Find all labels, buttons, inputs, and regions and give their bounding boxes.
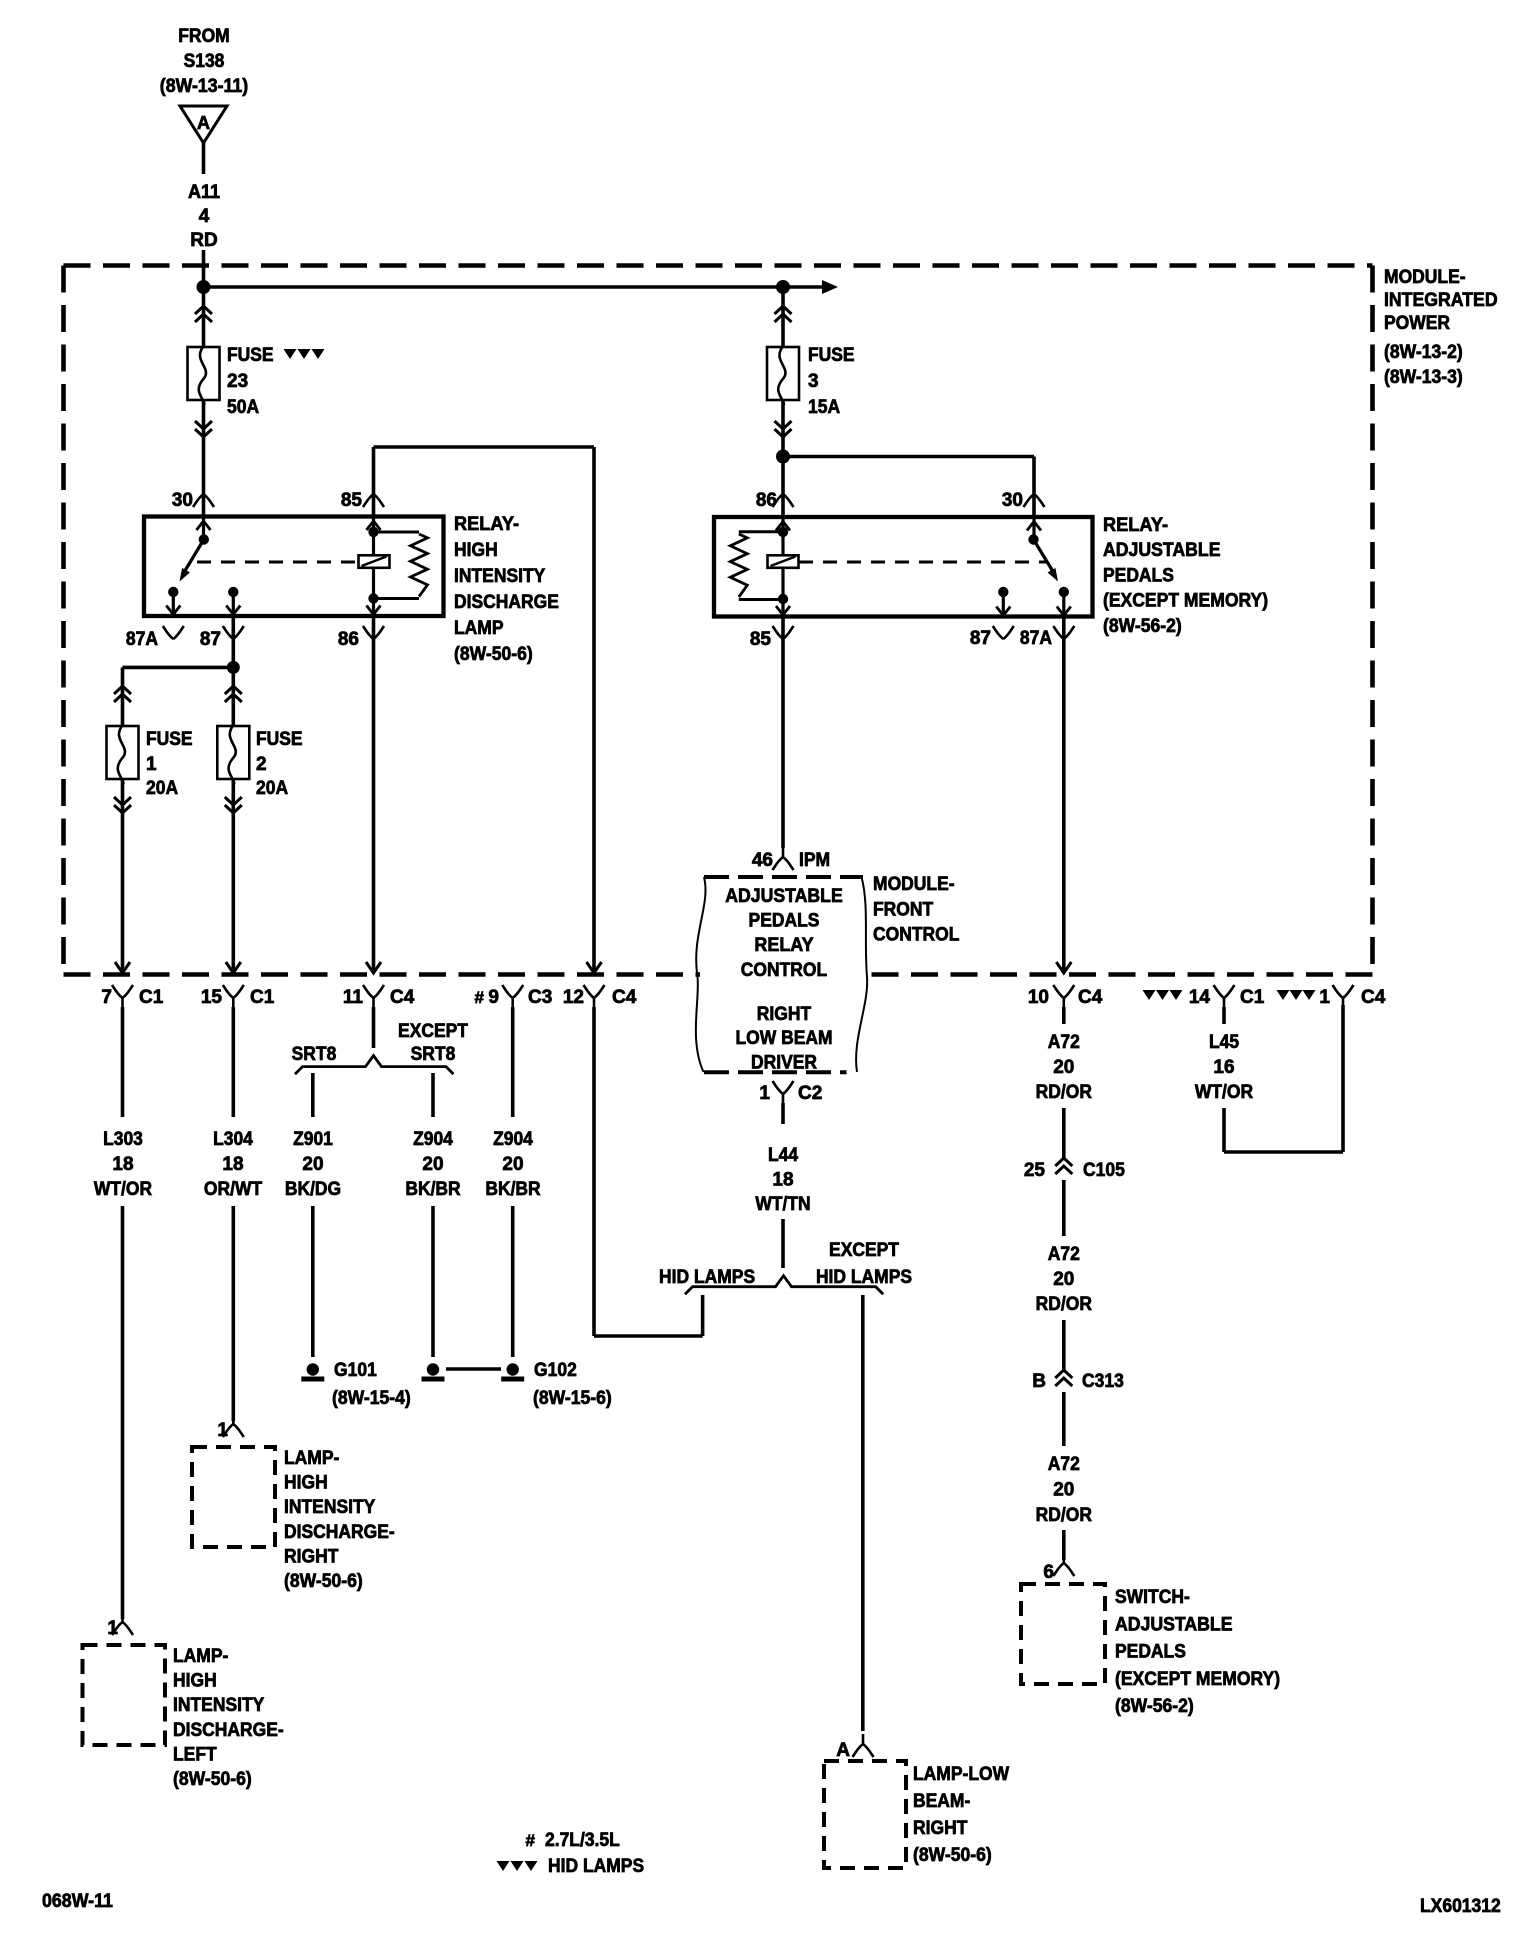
fuse 2 label	[256, 729, 303, 799]
lamp high intensity discharge right box	[192, 1447, 275, 1547]
svg-text:87A: 87A	[1020, 628, 1052, 649]
lamp high intensity discharge left box	[83, 1645, 166, 1745]
wire to switch pin 6	[1062, 1530, 1066, 1560]
pin label 87A	[126, 626, 184, 650]
svg-text:Z904: Z904	[413, 1129, 453, 1150]
connector 10 C4	[1028, 985, 1103, 1008]
svg-text:HIGH: HIGH	[454, 540, 498, 561]
svg-text:C4: C4	[390, 987, 415, 1008]
module-front control torn box	[696, 877, 867, 1072]
pin label 87 right relay	[970, 626, 1014, 649]
svg-text:30: 30	[1002, 490, 1023, 511]
svg-text:(EXCEPT MEMORY): (EXCEPT MEMORY)	[1103, 591, 1268, 612]
connector 12 C4	[563, 985, 637, 1008]
inline connector below fuse 2	[225, 797, 242, 813]
svg-text:20: 20	[422, 1154, 443, 1175]
svg-text:11: 11	[343, 987, 364, 1008]
right relay coil wire	[776, 519, 790, 615]
pin label 30 (right relay)	[1002, 490, 1045, 511]
module-integrated power dashed border box	[64, 266, 1373, 975]
wire label L45 16 WT/OR	[1195, 1032, 1254, 1103]
label SWITCH-ADJUSTABLE PEDALS	[1115, 1587, 1280, 1717]
svg-text:#: #	[526, 1831, 536, 1850]
wire label A11 4 RD	[188, 182, 221, 251]
label LAMP-HIGH INTENSITY DISCHARGE-LEFT	[173, 1646, 284, 1790]
svg-text:(8W-50-6): (8W-50-6)	[284, 1571, 363, 1592]
svg-text:86: 86	[756, 490, 777, 511]
svg-text:18: 18	[772, 1170, 793, 1191]
svg-text:10: 10	[1028, 987, 1049, 1008]
label SRT8	[292, 1044, 337, 1065]
wire Z901 upper	[311, 1073, 315, 1117]
svg-text:2: 2	[256, 754, 267, 775]
label LAMP-HIGH INTENSITY DISCHARGE-RIGHT	[284, 1448, 395, 1592]
svg-text:87A: 87A	[126, 629, 158, 650]
left relay coil bottom dot	[368, 593, 378, 603]
wire Z904 right to ground G102	[511, 1206, 515, 1357]
svg-text:20A: 20A	[146, 778, 178, 799]
svg-text:18: 18	[112, 1154, 133, 1175]
svg-text:C105: C105	[1083, 1160, 1125, 1181]
HID lamps split brace	[685, 1276, 883, 1295]
wire label A72 20 RD/OR (1)	[1036, 1032, 1093, 1103]
pin label 87A right relay	[1020, 626, 1074, 649]
svg-text:9: 9	[488, 987, 499, 1008]
svg-text:C4: C4	[612, 987, 637, 1008]
svg-text:L304: L304	[213, 1129, 253, 1150]
svg-text:23: 23	[227, 371, 248, 392]
lamp low beam right box	[824, 1761, 906, 1868]
svg-text:C1: C1	[139, 987, 164, 1008]
label EXCEPT HID LAMPS	[816, 1240, 912, 1288]
fuse 1 label	[146, 729, 193, 799]
wire Z904 mid upper	[431, 1073, 435, 1117]
svg-text:(8W-56-2): (8W-56-2)	[1115, 1696, 1194, 1717]
svg-text:(8W-50-6): (8W-50-6)	[173, 1769, 252, 1790]
svg-text:20: 20	[1053, 1269, 1074, 1290]
wire to C105	[1062, 1108, 1066, 1158]
fuse 23 label	[227, 345, 274, 418]
wire to fuse 2	[232, 667, 236, 726]
svg-text:HID LAMPS: HID LAMPS	[548, 1856, 644, 1877]
legend HID LAMPS	[497, 1856, 645, 1877]
svg-text:DISCHARGE-: DISCHARGE-	[173, 1720, 284, 1741]
svg-text:RIGHT: RIGHT	[913, 1818, 968, 1839]
wire left relay pin 85 to connector 12	[374, 447, 595, 972]
svg-text:LAMP-: LAMP-	[284, 1448, 339, 1469]
SRT8 split brace	[295, 1056, 454, 1075]
svg-text:HIGH: HIGH	[173, 1671, 217, 1692]
svg-text:RD: RD	[190, 230, 217, 251]
junction dot fuse 3 branch	[776, 280, 790, 294]
wire to fuse 1	[121, 667, 125, 726]
wire Z901 to ground G101	[311, 1206, 315, 1357]
svg-text:WT/TN: WT/TN	[755, 1194, 810, 1215]
svg-text:C4: C4	[1361, 987, 1386, 1008]
svg-text:(8W-56-2): (8W-56-2)	[1103, 616, 1182, 637]
wire Z904 mid to ground	[431, 1206, 435, 1357]
wire label L304 18 OR/WT	[204, 1129, 263, 1200]
wire fuse 3 to relay pin 86	[781, 400, 785, 517]
svg-text:RIGHT: RIGHT	[284, 1546, 339, 1567]
wire L304 to lamp right	[232, 1206, 236, 1421]
svg-text:LOW BEAM: LOW BEAM	[735, 1028, 832, 1049]
wire L45 loop to connector 1 C4	[1224, 1005, 1343, 1152]
label G101	[332, 1360, 411, 1409]
svg-text:G101: G101	[334, 1360, 377, 1381]
legend 2.7L/3.5L	[526, 1830, 621, 1851]
connector 1 C4	[1277, 985, 1386, 1008]
left relay switch arm	[180, 540, 204, 582]
pin label 46 IPM	[752, 847, 830, 871]
connector 1 C2	[759, 1081, 822, 1104]
svg-text:HIGH: HIGH	[284, 1473, 328, 1494]
right relay switch arm	[1034, 540, 1059, 582]
connector pin 1 lamp left	[107, 1612, 133, 1639]
wire label Z901 20 BK/DG	[285, 1129, 341, 1200]
pin label 87	[200, 626, 244, 650]
wire to C313	[1062, 1320, 1066, 1370]
right relay suppression resistor	[730, 532, 783, 600]
svg-text:INTENSITY: INTENSITY	[173, 1695, 265, 1716]
pin label 85 (left relay)	[341, 490, 384, 511]
svg-text:LEFT: LEFT	[173, 1744, 217, 1765]
svg-text:(EXCEPT MEMORY): (EXCEPT MEMORY)	[1115, 1669, 1280, 1690]
inline connector C313	[1032, 1370, 1124, 1392]
svg-text:18: 18	[222, 1154, 243, 1175]
fuse F23 50A	[188, 345, 220, 405]
connector 7 C1	[101, 985, 163, 1008]
label HID LAMPS	[659, 1267, 755, 1288]
svg-text:(8W-13-11): (8W-13-11)	[160, 76, 248, 97]
junction dot fuse3/relay30 branch	[776, 450, 790, 464]
connector pin 1 lamp right	[217, 1414, 243, 1441]
svg-text:LAMP-: LAMP-	[173, 1646, 228, 1667]
pin label 86 below	[338, 626, 384, 650]
svg-text:25: 25	[1024, 1160, 1046, 1181]
svg-text:INTENSITY: INTENSITY	[284, 1497, 376, 1518]
wire label Z904 20 BK/BR mid	[405, 1129, 461, 1200]
wire bus to fuse 3	[781, 287, 785, 348]
node S138 source label	[160, 26, 248, 97]
wire connector 7 down	[121, 1007, 125, 1117]
svg-text:A: A	[836, 1740, 850, 1761]
inline connector C105	[1024, 1158, 1125, 1181]
svg-text:RD/OR: RD/OR	[1036, 1082, 1093, 1103]
svg-text:46: 46	[752, 850, 773, 871]
left relay mechanical link	[197, 561, 359, 564]
left relay 87A stub	[166, 592, 180, 615]
left relay contact 87A dot	[168, 587, 178, 597]
svg-text:WT/OR: WT/OR	[94, 1179, 153, 1200]
svg-text:LX601312: LX601312	[1420, 1896, 1501, 1917]
label LAMP-LOW BEAM-RIGHT	[913, 1764, 1009, 1866]
svg-text:1: 1	[1319, 987, 1330, 1008]
svg-text:HID LAMPS: HID LAMPS	[816, 1267, 912, 1288]
svg-text:86: 86	[338, 629, 359, 650]
arrow into connector 11	[366, 962, 381, 973]
svg-text:FRONT: FRONT	[873, 899, 934, 920]
svg-text:(8W-50-6): (8W-50-6)	[913, 1845, 992, 1866]
arrow into connector 10	[1056, 962, 1071, 973]
right relay switch common dot	[1028, 534, 1038, 544]
svg-text:(8W-15-6): (8W-15-6)	[533, 1388, 612, 1409]
svg-text:6: 6	[1043, 1562, 1054, 1583]
right relay coil symbol	[768, 555, 799, 568]
wire pin 86 to connector 11	[372, 616, 376, 972]
svg-text:50A: 50A	[227, 397, 259, 418]
svg-text:20A: 20A	[256, 778, 288, 799]
svg-text:BK/BR: BK/BR	[485, 1179, 541, 1200]
svg-text:BK/BR: BK/BR	[405, 1179, 461, 1200]
svg-text:ADJUSTABLE: ADJUSTABLE	[725, 886, 843, 907]
svg-text:PEDALS: PEDALS	[1103, 565, 1174, 586]
junction dot 87 branch	[227, 661, 240, 674]
svg-text:SRT8: SRT8	[292, 1044, 337, 1065]
svg-text:MODULE-: MODULE-	[1384, 267, 1466, 288]
svg-text:16: 16	[1213, 1057, 1234, 1078]
wire fuse 2 to connector 15	[232, 779, 236, 972]
left relay 87 stub	[226, 592, 240, 615]
svg-text:EXCEPT: EXCEPT	[829, 1240, 899, 1261]
svg-text:L44: L44	[768, 1145, 798, 1166]
svg-text:14: 14	[1189, 987, 1211, 1008]
connector pin A lamp low beam	[836, 1734, 873, 1761]
svg-text:LAMP-LOW: LAMP-LOW	[913, 1764, 1009, 1785]
connector 15 C1	[201, 985, 275, 1008]
svg-text:G102: G102	[534, 1360, 577, 1381]
inline connector above fuse 23	[195, 306, 212, 322]
svg-text:C313: C313	[1082, 1371, 1124, 1392]
right relay mechanical link	[799, 561, 1046, 564]
inline connector below fuse 3	[775, 421, 792, 437]
svg-text:CONTROL: CONTROL	[741, 960, 828, 981]
svg-text:RD/OR: RD/OR	[1036, 1505, 1093, 1526]
svg-text:1: 1	[759, 1083, 770, 1104]
pin label 85 below	[750, 626, 794, 650]
left relay suppression resistor	[374, 532, 428, 599]
svg-text:S138: S138	[184, 51, 225, 72]
wire connector 10 down	[1062, 1007, 1066, 1024]
wire label A72 20 RD/OR (3)	[1036, 1454, 1093, 1526]
right relay coil bottom dot	[778, 594, 788, 604]
svg-text:87: 87	[970, 628, 991, 649]
svg-text:ADJUSTABLE: ADJUSTABLE	[1115, 1614, 1233, 1635]
left relay coil top dot	[368, 527, 378, 537]
wire A11 from triangle to bus	[202, 143, 206, 348]
connector 11 C4	[343, 985, 415, 1008]
label EXCEPT SRT8	[398, 1021, 468, 1065]
svg-text:3: 3	[808, 371, 819, 392]
svg-text:30: 30	[172, 490, 193, 511]
svg-text:(8W-13-2): (8W-13-2)	[1384, 342, 1463, 363]
svg-text:ADJUSTABLE: ADJUSTABLE	[1103, 540, 1221, 561]
label RELAY-HIGH INTENSITY DISCHARGE LAMP	[454, 514, 559, 665]
svg-text:(8W-13-3): (8W-13-3)	[1384, 367, 1463, 388]
wire except-hid to lamp low beam	[861, 1295, 865, 1731]
relay K1 high intensity discharge lamp box	[144, 517, 444, 617]
svg-text:LAMP: LAMP	[454, 618, 504, 639]
svg-text:20: 20	[1053, 1480, 1074, 1501]
HID lamps marker triangles at fuse 23	[284, 349, 325, 359]
connector 14 C1	[1143, 985, 1265, 1008]
svg-text:PEDALS: PEDALS	[1115, 1642, 1186, 1663]
label RELAY-ADJUSTABLE PEDALS (EXCEPT MEMORY)	[1103, 515, 1268, 637]
wire connector 11 to brace	[372, 1007, 376, 1048]
left relay pin30 internal arrow	[197, 518, 211, 540]
right relay coil top dot	[778, 527, 788, 537]
svg-text:20: 20	[302, 1154, 323, 1175]
svg-text:WT/OR: WT/OR	[1195, 1082, 1254, 1103]
svg-text:C1: C1	[1240, 987, 1265, 1008]
svg-text:4: 4	[199, 206, 210, 227]
left relay coil wire	[367, 518, 381, 615]
switch adjustable pedals box	[1021, 1584, 1105, 1684]
svg-text:A11: A11	[188, 182, 221, 203]
wire below C105	[1062, 1180, 1066, 1236]
svg-text:L303: L303	[103, 1129, 143, 1150]
svg-text:2.7L/3.5L: 2.7L/3.5L	[545, 1830, 620, 1851]
svg-text:15: 15	[201, 987, 223, 1008]
ground G102	[501, 1363, 524, 1379]
svg-text:85: 85	[341, 490, 363, 511]
svg-text:(8W-50-6): (8W-50-6)	[454, 644, 533, 665]
wire right relay 87A to connector 10	[1062, 617, 1066, 972]
svg-text:HID LAMPS: HID LAMPS	[659, 1267, 755, 1288]
svg-text:RELAY-: RELAY-	[1103, 515, 1168, 536]
svg-text:RD/OR: RD/OR	[1036, 1294, 1093, 1315]
svg-text:FUSE: FUSE	[146, 729, 193, 750]
svg-text:RIGHT: RIGHT	[757, 1004, 812, 1025]
wire connector 14 down	[1222, 1007, 1226, 1024]
wire label L44 18 WT/TN	[755, 1145, 810, 1215]
arrow into connector 15	[226, 962, 241, 973]
svg-text:SWITCH-: SWITCH-	[1115, 1587, 1190, 1608]
svg-text:L45: L45	[1209, 1032, 1239, 1053]
ground (mid, to G102)	[422, 1363, 445, 1379]
wire label Z904 20 BK/BR right	[485, 1129, 541, 1200]
right relay contact 87 dot	[998, 587, 1008, 597]
wire L44 to brace	[781, 1219, 785, 1268]
wire branch to right relay pin 30	[783, 457, 1034, 518]
svg-text:DISCHARGE: DISCHARGE	[454, 592, 559, 613]
svg-text:20: 20	[1053, 1057, 1074, 1078]
inline connector below fuse 1	[114, 797, 131, 813]
wire connector 15 down	[232, 1007, 236, 1117]
wire connector C2 down	[781, 1103, 785, 1124]
svg-text:87: 87	[200, 629, 221, 650]
svg-text:A72: A72	[1048, 1454, 1080, 1475]
arrow into connector 12	[587, 962, 602, 973]
left relay coil symbol	[359, 555, 390, 568]
svg-text:7: 7	[101, 987, 112, 1008]
svg-text:BK/DG: BK/DG	[285, 1179, 341, 1200]
svg-text:FUSE: FUSE	[227, 345, 274, 366]
svg-text:INTENSITY: INTENSITY	[454, 566, 546, 587]
svg-text:PEDALS: PEDALS	[749, 911, 820, 932]
svg-text:A72: A72	[1048, 1244, 1080, 1265]
wire connector 9 down	[511, 1007, 515, 1117]
svg-text:EXCEPT: EXCEPT	[398, 1021, 468, 1042]
torn box function text	[725, 886, 843, 1074]
svg-text:A: A	[197, 113, 210, 133]
label MODULE-INTEGRATED POWER	[1384, 267, 1498, 388]
pin label 86 (right relay)	[756, 490, 794, 511]
svg-text:85: 85	[750, 629, 772, 650]
wire fuse 23 to relay pin 30	[202, 400, 206, 516]
svg-text:DISCHARGE-: DISCHARGE-	[284, 1522, 395, 1543]
svg-text:1: 1	[146, 754, 157, 775]
svg-text:(8W-15-4): (8W-15-4)	[332, 1388, 411, 1409]
wire below C313	[1062, 1392, 1066, 1446]
svg-text:#: #	[475, 988, 485, 1007]
svg-text:INTEGRATED: INTEGRATED	[1384, 290, 1498, 311]
svg-text:20: 20	[502, 1154, 523, 1175]
svg-text:C1: C1	[250, 987, 275, 1008]
svg-text:RELAY: RELAY	[754, 935, 814, 956]
fuse F2 20A	[217, 724, 249, 784]
svg-text:A72: A72	[1048, 1032, 1080, 1053]
svg-text:FUSE: FUSE	[808, 345, 855, 366]
inline connector below fuse 23	[195, 421, 212, 437]
wire connector 12 down	[594, 1007, 703, 1336]
svg-text:B: B	[1032, 1371, 1046, 1392]
svg-text:12: 12	[563, 987, 584, 1008]
label G102	[533, 1360, 612, 1409]
junction dot A11 bus	[197, 280, 211, 294]
right relay 87 stub	[996, 592, 1010, 616]
svg-text:15A: 15A	[808, 397, 840, 418]
svg-text:C3: C3	[528, 987, 552, 1008]
right relay contact 87A dot	[1059, 587, 1069, 597]
svg-text:FUSE: FUSE	[256, 729, 303, 750]
wire 87 branch horizontal	[123, 666, 234, 670]
svg-text:POWER: POWER	[1384, 313, 1450, 334]
sheet number 068W-11	[42, 1891, 113, 1912]
relay K2 adjustable pedals box	[714, 517, 1093, 617]
svg-text:MODULE-: MODULE-	[873, 874, 955, 895]
svg-text:RELAY-: RELAY-	[454, 514, 519, 535]
fuse F1 20A	[107, 724, 139, 784]
wire fuse 1 to connector 7	[121, 779, 125, 972]
wire label L303 18 WT/OR	[94, 1129, 153, 1200]
svg-text:BEAM-: BEAM-	[913, 1791, 970, 1812]
fuse F3 15A	[767, 345, 799, 405]
right relay 87A stub	[1057, 592, 1071, 616]
svg-text:068W-11: 068W-11	[42, 1891, 113, 1912]
svg-text:SRT8: SRT8	[411, 1044, 456, 1065]
svg-text:Z904: Z904	[493, 1129, 533, 1150]
right relay pin30 internal arrow	[1027, 519, 1041, 540]
connector 9 C3 marker	[475, 985, 553, 1008]
wire label A72 20 RD/OR (2)	[1036, 1244, 1093, 1315]
svg-text:IPM: IPM	[799, 850, 830, 871]
inline connector above fuse 3	[775, 306, 792, 322]
wire L303 to lamp left	[121, 1206, 125, 1619]
wire pin 87 down	[232, 616, 236, 667]
wire right relay 85 to IPM pin 46	[781, 617, 785, 848]
label MODULE-FRONT CONTROL	[873, 874, 960, 946]
pin label 30 (left relay)	[172, 490, 214, 511]
svg-text:C2: C2	[798, 1083, 822, 1104]
off-page connector A (triangle)	[180, 106, 227, 143]
inline connector above fuse 1	[114, 686, 131, 702]
inline connector above fuse 2	[225, 686, 242, 702]
power bus wire	[204, 285, 823, 289]
svg-text:CONTROL: CONTROL	[873, 925, 960, 946]
bus arrowhead	[822, 280, 838, 294]
svg-text:DRIVER: DRIVER	[751, 1053, 817, 1074]
